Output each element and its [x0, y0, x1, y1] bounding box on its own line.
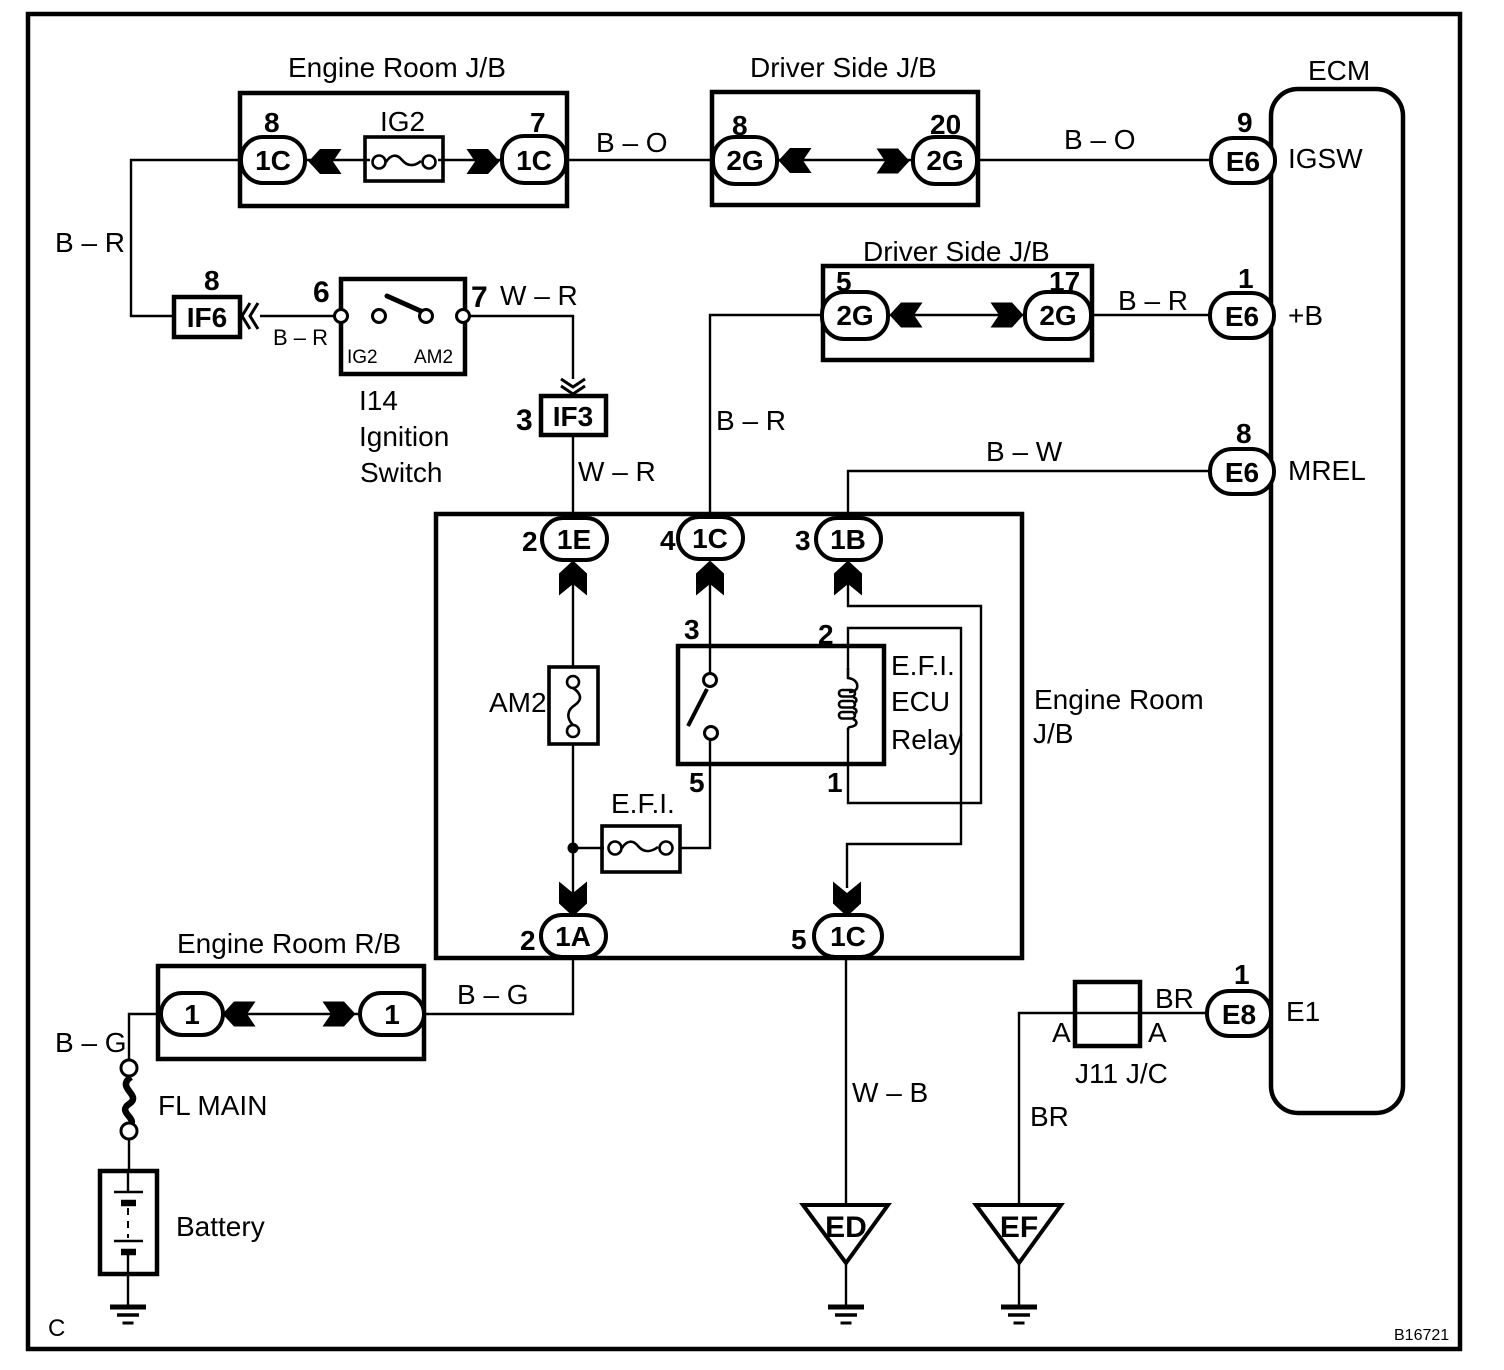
- wire relay coil pin 2 to 1C-5: [847, 628, 961, 888]
- wire coil bottom to relay bottom edge: [847, 728, 849, 764]
- ground (ED): [828, 1307, 864, 1323]
- wire from chevrons to ignition switch pin 6: [260, 315, 337, 317]
- svg-text:1: 1: [184, 999, 200, 1030]
- svg-text:Engine Room R/B: Engine Room R/B: [177, 928, 401, 959]
- ECM body rounded box: [1271, 89, 1403, 1113]
- battery plate short 2: [121, 1249, 136, 1256]
- switch inner contact AM2: [420, 310, 433, 323]
- relay block Engine Room R/B box: [158, 966, 424, 1059]
- svg-text:1C: 1C: [830, 921, 866, 952]
- wire BR from EF up to J11: [1019, 1013, 1209, 1205]
- svg-text:2G: 2G: [836, 300, 873, 331]
- wire EFI fuse to relay pin 5: [680, 740, 710, 848]
- svg-text:B – R: B – R: [1118, 285, 1188, 316]
- svg-text:1: 1: [1234, 959, 1250, 990]
- svg-text:Engine Room J/B: Engine Room J/B: [288, 52, 506, 83]
- fuse EFI box: [602, 826, 680, 872]
- wire FL MAIN to battery: [128, 1139, 130, 1172]
- switch pin circle 6: [335, 310, 348, 323]
- svg-text:Switch: Switch: [360, 457, 442, 488]
- svg-text:MREL: MREL: [1288, 455, 1366, 486]
- switch blade: [387, 296, 423, 312]
- svg-text:BR: BR: [1155, 983, 1194, 1014]
- connector oval 1B pin 3: [816, 518, 881, 560]
- svg-text:W – B: W – B: [852, 1077, 928, 1108]
- relay EFI ECU Relay box: [678, 646, 884, 764]
- svg-text:3: 3: [795, 525, 811, 556]
- svg-text:B – R: B – R: [273, 325, 328, 350]
- svg-text:J/B: J/B: [1033, 718, 1073, 749]
- svg-text:IG2: IG2: [380, 106, 425, 137]
- svg-text:2G: 2G: [1039, 300, 1076, 331]
- svg-text:AM2: AM2: [414, 347, 453, 368]
- relay switch blade: [688, 689, 707, 726]
- wire B-W from MREL to 1B: [848, 471, 1212, 520]
- battery plate short 1: [121, 1200, 136, 1207]
- arrow up below 1C-4: [696, 561, 724, 596]
- wire B-O to ECM IGSW: [977, 159, 1213, 161]
- svg-text:BR: BR: [1030, 1101, 1069, 1132]
- svg-text:7: 7: [471, 281, 488, 314]
- wire 1A to Engine Room R/B: [426, 957, 573, 1014]
- connector oval E8 pin 1: [1207, 991, 1271, 1036]
- svg-text:1A: 1A: [555, 921, 591, 952]
- arrow (left) inside Engine Room J/B: [309, 149, 342, 174]
- svg-text:C: C: [48, 1315, 65, 1342]
- arrow (right) inside Engine Room J/B: [467, 149, 500, 174]
- open chevron arrow into IF3: [561, 379, 585, 394]
- wire 1B to relay pin 1: [848, 578, 981, 803]
- junction block Driver Side J/B box: [712, 92, 978, 205]
- wire from R/B left to FL MAIN: [129, 1014, 161, 1060]
- wire from 1C-8 to fuse IG2: [300, 159, 370, 161]
- svg-text:Engine Room: Engine Room: [1034, 684, 1204, 715]
- arrow (right) inside Driver Side J/B 2: [991, 303, 1024, 328]
- svg-text:8: 8: [1236, 418, 1252, 449]
- svg-text:B – W: B – W: [986, 436, 1063, 467]
- wire from IF3 down to 1E: [572, 435, 574, 520]
- ground connector EF triangle: [976, 1205, 1061, 1263]
- svg-text:E6: E6: [1225, 457, 1259, 488]
- ignition switch I14 box: [341, 279, 465, 374]
- connector oval E6 pin 8: [1210, 449, 1274, 494]
- connector oval 1C pin 7: [502, 136, 566, 183]
- svg-text:Driver Side J/B: Driver Side J/B: [863, 236, 1050, 267]
- open chevron arrow into IF6: [242, 303, 258, 329]
- connector oval 1E pin 2: [542, 518, 607, 560]
- connector oval 1C pin 5: [814, 915, 882, 957]
- svg-text:A: A: [1052, 1017, 1071, 1048]
- wire W-B from 1C-5 to ED: [845, 957, 847, 1205]
- svg-text:Relay: Relay: [891, 724, 963, 755]
- wire 1C-4 to relay pin 3: [709, 578, 711, 676]
- svg-text:1: 1: [384, 999, 400, 1030]
- wire inside Engine Room R/B: [220, 1013, 360, 1015]
- svg-text:B – O: B – O: [596, 127, 668, 158]
- connector oval 1 (right): [360, 993, 424, 1035]
- wire B-R to ECM +B: [1091, 314, 1212, 316]
- svg-text:A: A: [1148, 1017, 1167, 1048]
- connector oval 2G pin 5: [822, 292, 888, 339]
- junction dot: [568, 843, 579, 854]
- svg-text:IF6: IF6: [187, 302, 227, 333]
- svg-text:B – G: B – G: [55, 1027, 127, 1058]
- svg-text:2G: 2G: [726, 145, 763, 176]
- svg-text:8: 8: [204, 265, 220, 296]
- svg-text:AM2: AM2: [489, 687, 547, 718]
- svg-text:2: 2: [818, 619, 834, 650]
- junction connector J11 box: [1075, 982, 1140, 1046]
- ground (EF): [1001, 1307, 1037, 1323]
- switch pin circle 7: [457, 310, 470, 323]
- junction block Engine Room J/B box: [240, 93, 567, 206]
- connector oval 1C pin 8: [241, 137, 305, 183]
- relay contact circle top: [704, 674, 717, 687]
- junction block Driver Side J/B box 2: [823, 266, 1092, 360]
- connector oval 1C pin 4: [678, 517, 743, 559]
- svg-text:1E: 1E: [557, 524, 591, 555]
- svg-text:E8: E8: [1222, 999, 1256, 1030]
- junction block Engine Room J/B box 2: [436, 514, 1022, 958]
- svg-text:Driver Side J/B: Driver Side J/B: [750, 52, 937, 83]
- wire inside Driver Side J/B 2: [885, 314, 1029, 316]
- svg-text:B – G: B – G: [457, 979, 529, 1010]
- svg-text:1: 1: [827, 767, 843, 798]
- fusible link FL MAIN bottom circle: [121, 1123, 137, 1139]
- svg-text:17: 17: [1049, 266, 1080, 297]
- wire ED to ground: [845, 1263, 847, 1306]
- wire B-R from connector 1C-8 to left: [131, 160, 241, 316]
- battery internal bottom lead: [127, 1252, 129, 1274]
- svg-text:B – R: B – R: [55, 227, 125, 258]
- wire from switch pin 7 to IF3: [470, 316, 573, 379]
- battery plate long 2: [114, 1240, 143, 1243]
- svg-text:J11 J/C: J11 J/C: [1075, 1058, 1168, 1089]
- wire B-O between J/Bs: [566, 159, 713, 161]
- svg-text:B – R: B – R: [716, 405, 786, 436]
- wire inside Driver Side J/B: [775, 159, 915, 161]
- svg-text:2G: 2G: [926, 145, 963, 176]
- arrow (left) inside Driver Side J/B: [779, 148, 812, 173]
- svg-text:1C: 1C: [692, 523, 728, 554]
- arrow (left) inside Driver Side J/B 2: [890, 303, 923, 328]
- svg-text:ECU: ECU: [891, 686, 950, 717]
- arrow (right) inside Driver Side J/B: [877, 149, 910, 174]
- arrow up below 1B: [834, 561, 862, 596]
- svg-text:8: 8: [264, 107, 280, 138]
- svg-text:6: 6: [313, 276, 330, 309]
- svg-text:3: 3: [516, 404, 533, 437]
- svg-text:E6: E6: [1226, 146, 1260, 177]
- svg-text:5: 5: [836, 266, 852, 297]
- svg-text:E1: E1: [1286, 996, 1320, 1027]
- connector oval 1A pin 2: [541, 915, 606, 957]
- svg-text:1B: 1B: [830, 524, 866, 555]
- fusible link FL MAIN element: [125, 1077, 133, 1127]
- ground (battery): [110, 1307, 146, 1323]
- svg-text:EF: EF: [1000, 1211, 1038, 1244]
- switch inner contact IG2: [373, 310, 386, 323]
- fuse AM2 box: [549, 667, 598, 744]
- fuse IG2 element: [373, 156, 436, 169]
- svg-text:B16721: B16721: [1394, 1327, 1449, 1344]
- battery plate long 1: [114, 1191, 143, 1194]
- relay coil: [839, 668, 857, 730]
- svg-text:IF3: IF3: [553, 401, 593, 432]
- svg-text:1C: 1C: [255, 145, 291, 176]
- svg-text:5: 5: [689, 767, 705, 798]
- svg-text:E6: E6: [1225, 301, 1259, 332]
- wire 1E to AM2 fuse: [572, 578, 574, 668]
- relay contact circle bottom: [705, 727, 718, 740]
- battery dashed center line: [127, 1208, 129, 1238]
- battery internal top lead: [127, 1171, 129, 1192]
- fuse AM2 element: [567, 676, 580, 737]
- battery box: [100, 1171, 157, 1274]
- svg-text:Ignition: Ignition: [359, 421, 449, 452]
- connector oval 2G pin 17: [1025, 292, 1091, 339]
- arrow (right) inside R/B: [323, 1002, 356, 1027]
- wire EF to ground: [1018, 1263, 1020, 1306]
- connector oval 2G pin 20: [913, 137, 977, 184]
- svg-text:+B: +B: [1288, 300, 1323, 331]
- svg-text:I14: I14: [359, 385, 398, 416]
- svg-text:7: 7: [530, 107, 546, 138]
- svg-text:IGSW: IGSW: [1288, 143, 1363, 174]
- svg-text:ECM: ECM: [1308, 55, 1370, 86]
- arrow down above 1C-5: [833, 882, 861, 917]
- svg-text:3: 3: [684, 614, 700, 645]
- relay block IF6 box: [174, 297, 240, 337]
- svg-text:5: 5: [791, 924, 807, 955]
- svg-text:ED: ED: [825, 1211, 867, 1244]
- wire B-R down to 1C-4: [710, 315, 822, 520]
- wire battery to ground: [127, 1274, 129, 1306]
- svg-text:9: 9: [1237, 107, 1253, 138]
- svg-text:B – O: B – O: [1064, 124, 1136, 155]
- svg-text:2: 2: [522, 526, 538, 557]
- svg-text:IG2: IG2: [347, 347, 378, 368]
- arrow up below 1E: [559, 561, 587, 596]
- wire junction to EFI fuse: [573, 847, 604, 849]
- svg-text:1C: 1C: [516, 145, 552, 176]
- fusible link FL MAIN top circle: [121, 1060, 137, 1076]
- svg-text:W – R: W – R: [578, 456, 656, 487]
- svg-text:4: 4: [660, 525, 676, 556]
- svg-text:2: 2: [520, 925, 536, 956]
- arrow (left) inside R/B: [223, 1002, 256, 1027]
- connector oval E6 pin 1: [1210, 293, 1274, 338]
- svg-text:E.F.I.: E.F.I.: [611, 788, 675, 819]
- svg-text:W – R: W – R: [500, 280, 578, 311]
- svg-text:20: 20: [930, 109, 961, 140]
- svg-text:E.F.I.: E.F.I.: [891, 650, 955, 681]
- wire from fuse IG2 to 1C-7: [438, 159, 508, 161]
- connector oval 1 (left): [161, 993, 223, 1035]
- arrow down above 1A: [559, 882, 587, 917]
- connector oval 2G pin 8: [713, 137, 777, 184]
- svg-text:8: 8: [732, 110, 748, 141]
- fuse EFI element: [609, 842, 673, 855]
- relay block IF3 box: [541, 396, 606, 435]
- connector oval E6 pin 9: [1211, 138, 1275, 183]
- ground connector ED triangle: [803, 1205, 888, 1263]
- svg-text:1: 1: [1238, 263, 1254, 294]
- wire AM2 fuse to junction to 1A: [572, 744, 574, 916]
- fuse IG2 box: [365, 137, 443, 181]
- svg-text:Battery: Battery: [176, 1211, 265, 1242]
- svg-text:FL MAIN: FL MAIN: [158, 1090, 267, 1121]
